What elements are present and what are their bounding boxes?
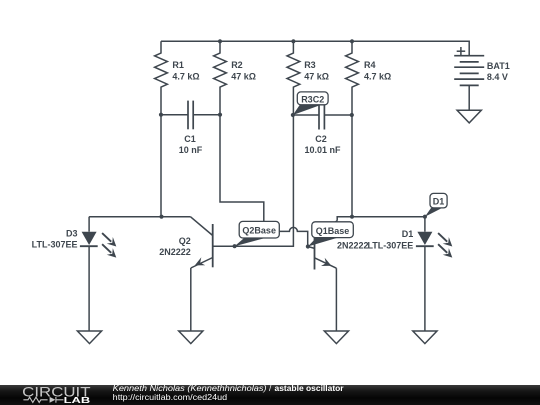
node dots <box>159 39 427 248</box>
svg-text:R4: R4 <box>364 60 376 70</box>
svg-text:LAB: LAB <box>64 395 91 404</box>
node Q1 collector <box>350 215 354 219</box>
resistor R1 <box>155 41 168 114</box>
svg-text:LTL-307EE: LTL-307EE <box>367 240 413 250</box>
wire Q2 base to R3/C2 node <box>213 115 294 246</box>
CircuitLab logo <box>0 385 400 405</box>
wire node to D3 <box>89 216 161 218</box>
svg-text:2N2222: 2N2222 <box>159 247 191 257</box>
svg-text:47 kΩ: 47 kΩ <box>231 71 256 81</box>
LED D1 <box>416 217 452 331</box>
node C1 right <box>218 113 222 117</box>
svg-text:http://circuitlab.com/ced24ud: http://circuitlab.com/ced24ud <box>113 391 228 401</box>
svg-text:R2: R2 <box>231 60 243 70</box>
wire R4 bottom to Q1 collector node <box>351 115 353 217</box>
node Q1Base anchor <box>306 244 310 248</box>
svg-text:47 kΩ: 47 kΩ <box>304 71 329 81</box>
svg-text:C1: C1 <box>184 134 196 144</box>
node Q2Base anchor <box>233 244 237 248</box>
wire R1 bottom to Q2 collector node <box>160 115 162 217</box>
svg-text:10 nF: 10 nF <box>179 145 203 155</box>
svg-text:Q2Base: Q2Base <box>242 226 276 236</box>
svg-text:BAT1: BAT1 <box>487 61 510 71</box>
svg-text:D3: D3 <box>66 229 78 239</box>
svg-text:Q1Base: Q1Base <box>316 226 350 236</box>
svg-text:10.01 nF: 10.01 nF <box>304 145 341 155</box>
resistor R4 <box>346 41 359 115</box>
capacitor C2 <box>293 101 351 130</box>
ground D3 <box>77 331 101 344</box>
wire top rail <box>161 41 469 55</box>
node R4 top <box>350 39 354 43</box>
svg-text:astable oscillator: astable oscillator <box>275 385 345 393</box>
svg-text:Q2: Q2 <box>179 236 191 246</box>
svg-text:R1: R1 <box>172 60 184 70</box>
ground Q2 <box>179 331 203 344</box>
flag R3C2 <box>293 92 328 115</box>
svg-text:R3: R3 <box>304 60 316 70</box>
flag Q1Base <box>308 222 353 247</box>
node R2 top <box>218 39 222 43</box>
node C1 left <box>159 113 163 117</box>
LED D3 <box>80 217 116 331</box>
battery BAT1 <box>454 47 484 85</box>
wire Q1Base net: R2 bottom down, right, down, hop over, to base dot <box>220 115 308 247</box>
ground D1 <box>413 331 437 344</box>
footer bar <box>0 385 540 405</box>
svg-text:4.7 kΩ: 4.7 kΩ <box>364 71 391 81</box>
svg-text:R3C2: R3C2 <box>301 94 324 104</box>
flag Q2Base <box>235 221 280 246</box>
svg-text:LTL-307EE: LTL-307EE <box>32 239 78 249</box>
svg-text:4.7 kΩ: 4.7 kΩ <box>172 71 199 81</box>
flag D1 <box>425 193 447 216</box>
transistor Q2 <box>161 217 213 331</box>
svg-text:D1: D1 <box>402 229 414 239</box>
svg-text:2N2222: 2N2222 <box>337 240 369 250</box>
svg-text:/: / <box>269 385 272 393</box>
node Q2 collector <box>159 215 163 219</box>
ground Q1 <box>324 331 348 344</box>
svg-text:C2: C2 <box>315 134 327 144</box>
capacitor C1 <box>161 101 220 130</box>
node C2 right <box>350 113 354 117</box>
svg-text:D1: D1 <box>433 196 445 206</box>
svg-text:8.4 V: 8.4 V <box>487 72 508 82</box>
node R3 top <box>291 39 295 43</box>
resistor R3 <box>287 41 300 115</box>
node D1 top <box>423 215 427 219</box>
transistor Q1 <box>308 217 352 331</box>
resistor R2 <box>214 41 227 114</box>
wire Q1 collector node to D1 node <box>352 216 425 218</box>
wire battery to ground <box>468 85 470 110</box>
ground battery <box>457 110 481 123</box>
node R3C2 <box>291 113 295 117</box>
